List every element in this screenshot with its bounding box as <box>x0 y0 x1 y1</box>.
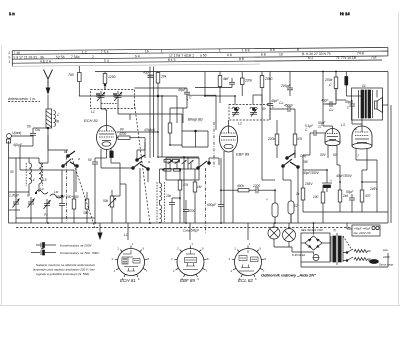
svg-text:+40µF +40µF: +40µF +40µF <box>354 227 371 231</box>
svg-text:40pF: 40pF <box>178 88 187 92</box>
svg-text:52 56: 52 56 <box>56 55 65 59</box>
svg-text:Kondensatory na 250V: Kondensatory na 250V <box>60 244 92 248</box>
svg-text:40µF/350V: 40µF/350V <box>336 174 353 178</box>
wire det to pot <box>221 189 230 191</box>
cord resist 1 <box>354 250 371 253</box>
svg-text:470: 470 <box>365 194 371 198</box>
svg-text:lampowym przy napięciu anodowy: lampowym przy napięciu anodowym 220 V i … <box>33 268 95 272</box>
svg-text:L2: L2 <box>238 122 242 126</box>
svg-text:50V: 50V <box>320 153 327 157</box>
svg-text:Cw: Cw <box>329 108 334 112</box>
svg-text:6 8: 6 8 <box>227 53 232 57</box>
svg-text:450pF: 450pF <box>284 104 294 108</box>
svg-text:4: 4 <box>231 269 233 273</box>
svg-text:ECH 81: ECH 81 <box>120 278 136 283</box>
wire v2 bottom drops <box>223 160 225 223</box>
switch contacts osc <box>35 187 63 198</box>
dial row1 numbers <box>13 48 299 55</box>
svg-text:EBF 89: EBF 89 <box>236 152 250 157</box>
tube V4 ECL82 pentode envelope <box>352 126 372 146</box>
junction dots <box>157 95 159 97</box>
svg-text:100+580: 100+580 <box>66 195 79 199</box>
resistor R19 1k5 <box>338 182 348 212</box>
bridge rectifier <box>305 236 322 250</box>
svg-text:3W: 3W <box>303 160 309 164</box>
wire right edge vertical <box>387 72 389 224</box>
gang mechanical dashed diagonal <box>135 104 151 224</box>
wire if can vertical <box>176 96 178 123</box>
wire v1 bottom mesh <box>101 167 133 169</box>
wire main ground bus <box>9 222 389 224</box>
L2 tuned circuit b <box>250 107 257 116</box>
fuse <box>313 255 319 261</box>
svg-text:1k5: 1k5 <box>343 194 348 198</box>
wire left mid <box>75 166 77 192</box>
svg-text:8: 8 <box>265 257 267 261</box>
svg-text:L3: L3 <box>341 123 345 127</box>
junction dots cluster <box>162 156 185 171</box>
resistor R18 100 <box>313 185 325 212</box>
svg-text:EBF 89: EBF 89 <box>180 278 195 283</box>
svg-text:6,3V/0,3A: 6,3V/0,3A <box>292 253 305 257</box>
svg-text:390: 390 <box>83 211 89 215</box>
legend capacitor 500V <box>31 248 100 255</box>
svg-text:C: C <box>57 113 60 117</box>
svg-text:10n: 10n <box>166 194 172 198</box>
tube socket ECL82 <box>229 242 267 281</box>
speaker <box>375 98 383 113</box>
svg-text:20k0: 20k0 <box>264 77 272 81</box>
capacitor C20 2200 horizontal <box>252 184 268 193</box>
band switch mechanical dashed left <box>72 158 95 228</box>
resistor R4 7k <box>68 66 81 96</box>
wire cathode down <box>100 149 102 168</box>
dial row2 numbers <box>13 51 364 59</box>
svg-text:47k(krj): 47k(krj) <box>144 128 155 132</box>
IF transformer L2 dashed box <box>229 105 270 121</box>
wires tubes down <box>327 145 329 158</box>
svg-text:9: 9 <box>202 247 204 251</box>
svg-text:7: 7 <box>357 154 359 158</box>
wire grid to gang <box>105 109 107 111</box>
wires power <box>273 239 275 247</box>
dial lamp 1 <box>268 227 280 239</box>
svg-text:+: + <box>330 179 332 183</box>
svg-text:7 5 4: 7 5 4 <box>101 50 109 54</box>
variable capacitor CV2 <box>113 91 122 106</box>
capacitor C29 40pF <box>143 71 154 78</box>
svg-text:71 77s 14 1B: 71 77s 14 1B <box>336 56 357 60</box>
capacitor C21 4700 <box>207 200 224 223</box>
transformer link dashed <box>343 236 352 250</box>
svg-text:+: + <box>266 198 268 202</box>
coil L4 <box>26 158 31 196</box>
svg-text:Tr.: Tr. <box>333 229 337 233</box>
svg-text:8 8: 8 8 <box>270 48 275 52</box>
wires detector mesh <box>160 168 199 170</box>
svg-text:7: 7 <box>146 269 148 273</box>
svg-text:1 n: 1 n <box>9 11 15 16</box>
svg-text:a′: a′ <box>226 77 229 81</box>
tube V3 electrodes <box>327 126 338 140</box>
svg-text:1,30pF: 1,30pF <box>9 194 20 198</box>
wire left long horizontals <box>9 191 30 193</box>
band switch wipers mid2 <box>197 161 210 169</box>
svg-text:1: 1 <box>249 242 251 246</box>
tube V3 ECL82 triode envelope <box>325 129 340 143</box>
gang link dashes <box>101 103 118 105</box>
resistor R17 1k <box>296 180 305 212</box>
mains switch 2 <box>343 257 353 261</box>
dashed chassis line <box>16 227 352 229</box>
svg-text:ECL 82: ECL 82 <box>238 278 253 283</box>
svg-text:SEL 90-9E1 C60: SEL 90-9E1 C60 <box>301 228 323 232</box>
tube socket ECH81 <box>112 242 150 281</box>
legend capacitor 250V <box>36 243 92 248</box>
svg-text:5 4: 5 4 <box>135 54 140 58</box>
svg-text:4: 4 <box>114 269 116 273</box>
svg-text:a: a <box>78 157 80 161</box>
wire wiper drops <box>139 168 141 223</box>
svg-text:Kondensatory na 700...500V: Kondensatory na 700...500V <box>60 251 100 255</box>
resistor R11 47k <box>144 123 172 145</box>
svg-text:Lw: Lw <box>54 190 59 194</box>
band switch wipers det <box>282 153 299 168</box>
svg-text:10: 10 <box>279 52 283 56</box>
svg-text:6: 6 <box>198 277 200 281</box>
svg-text:75s: 75s <box>371 55 377 59</box>
coil L6 osc IF <box>157 169 165 222</box>
svg-text:4700: 4700 <box>188 209 195 213</box>
wire bridge <box>313 252 315 255</box>
svg-text:8: 8 <box>207 257 209 261</box>
capacitor C25 <box>321 99 336 113</box>
coupling cap to V3 <box>310 130 325 136</box>
trimmer row mid <box>168 160 194 169</box>
svg-text:4(0µF: 4(0µF <box>13 143 23 147</box>
electrolytic C23 <box>288 192 298 223</box>
svg-text:Napięcie mierzone na odbiornik: Napięcie mierzone na odbiornik woltomier… <box>36 263 96 267</box>
svg-text:3: 3 <box>229 257 231 261</box>
capacitor C19 4700 <box>183 205 195 223</box>
extra mesh wires middle <box>9 72 392 224</box>
svg-text:a 50: a 50 <box>200 53 207 57</box>
svg-text:9: 9 <box>260 247 262 251</box>
cathode blob V1 <box>110 151 113 158</box>
wire y87.5 <box>195 87 232 89</box>
svg-text:b: b <box>64 150 66 154</box>
wire coil down <box>47 128 49 163</box>
dial scale faint line5 <box>12 64 260 66</box>
svg-text:Lo: Lo <box>40 187 44 191</box>
svg-text:1290: 1290 <box>108 75 116 79</box>
wire pair x162 <box>161 96 163 157</box>
svg-text:7 16: 7 16 <box>13 51 20 55</box>
svg-text:50k: 50k <box>103 199 109 203</box>
variable capacitor CV1 <box>96 91 105 106</box>
tube socket EBF89 <box>171 242 209 281</box>
resistor R20 470 <box>360 182 370 212</box>
svg-text:a: a <box>148 160 150 164</box>
svg-text:245V: 245V <box>369 187 378 191</box>
mains plug <box>368 260 379 264</box>
svg-text:7: 7 <box>206 269 208 273</box>
capacitor C11 40pF <box>178 88 192 100</box>
band switch wipers left <box>62 151 78 167</box>
svg-text:Czba 5/6µF: Czba 5/6µF <box>183 229 200 233</box>
svg-text:Odbiornik radiowy „Aida 2N”: Odbiornik radiowy „Aida 2N” <box>261 273 316 278</box>
tube V2 EBF89 envelope <box>220 126 238 152</box>
svg-text:50: 50 <box>88 158 92 162</box>
resistor R5 20k <box>103 72 115 91</box>
SECTION:dialband <box>8 47 388 66</box>
svg-text:2: 2 <box>235 247 237 251</box>
mains switch 1 <box>343 249 353 253</box>
svg-text:B. K 26 27 33 N 75: B. K 26 27 33 N 75 <box>302 52 331 56</box>
svg-text:16: 16 <box>145 49 149 53</box>
svg-text:8: 8 <box>148 257 150 261</box>
wires output stage <box>322 72 324 127</box>
svg-text:220k: 220k <box>267 137 275 141</box>
tube V4 electrodes <box>355 124 369 143</box>
resistor R10 100k horizontal <box>117 132 146 142</box>
svg-text:12: 12 <box>318 125 322 129</box>
svg-text:N 2: N 2 <box>308 56 313 60</box>
cap can block <box>352 225 380 236</box>
svg-text:C: C <box>329 83 332 87</box>
svg-text:zwn.: zwn. <box>382 248 389 252</box>
tube V2 electrodes <box>221 120 236 149</box>
svg-text:74 B: 74 B <box>357 51 365 55</box>
wire y88 horizontal <box>135 87 188 89</box>
power section box <box>301 233 330 262</box>
cord resist 2 <box>354 258 371 261</box>
wire under v1 <box>112 195 120 197</box>
svg-text:1 2: 1 2 <box>82 50 87 54</box>
wire top right join <box>336 99 346 101</box>
coil L5 <box>31 158 47 192</box>
svg-text:50: 50 <box>10 170 14 174</box>
svg-text:50µF: 50µF <box>346 190 354 194</box>
ground arrow <box>97 223 102 240</box>
svg-text:3: 3 <box>112 257 114 261</box>
wire mid vertical x213 <box>188 94 216 96</box>
capacitor C osc 250pF <box>55 195 66 212</box>
svg-text:200k: 200k <box>324 78 333 82</box>
svg-text:2: 2 <box>177 247 179 251</box>
resistor R14 47k <box>178 169 188 200</box>
electrolytic C22 <box>266 195 278 223</box>
svg-text:12: 12 <box>294 204 298 208</box>
svg-text:1: 1 <box>161 49 163 53</box>
svg-text:Gw. 220V~50: Gw. 220V~50 <box>354 231 371 235</box>
dial row3 numbers <box>40 55 377 63</box>
svg-text:L5: L5 <box>43 178 47 182</box>
svg-text:2: 2 <box>8 51 10 55</box>
capacitor C27 <box>346 190 355 206</box>
capacitor C17 450pF <box>279 101 295 112</box>
resistor R8 20k0 <box>260 72 272 104</box>
svg-text:Gł.: Gł. <box>362 84 366 88</box>
coil L7 <box>160 200 162 223</box>
svg-text:U(ant): U(ant) <box>12 131 21 135</box>
capacitor C cath <box>88 158 98 170</box>
electrolytic C26 <box>322 178 332 192</box>
svg-text:6g: 6g <box>55 119 59 123</box>
resistor R25 220k <box>240 72 252 97</box>
svg-text:6: 6 <box>138 277 140 281</box>
svg-text:50: 50 <box>27 125 31 129</box>
ferrite rod coil Cw <box>46 109 60 128</box>
junction dots bus <box>47 222 314 224</box>
wires osc mesh <box>9 157 30 159</box>
svg-text:5 4: 5 4 <box>104 59 109 63</box>
svg-text:5 9 17 21 26 31: 5 9 17 21 26 31 <box>13 55 37 59</box>
capacitor C24 40pF out <box>345 100 355 110</box>
wire B+ top bus <box>95 71 388 73</box>
band switch wipers mid <box>132 155 149 170</box>
wire speaker top <box>376 90 378 98</box>
resistor R12 220k <box>267 120 279 158</box>
wire top mid drops <box>289 72 291 85</box>
wires supply rail <box>302 155 304 180</box>
resistor 390 <box>83 192 89 223</box>
capacitor C13 200pF <box>280 84 293 96</box>
wire right of v2 <box>261 120 263 180</box>
capacitor C18 <box>166 194 175 210</box>
svg-text:Antena wewn. 1 m.: Antena wewn. 1 m. <box>7 97 36 101</box>
svg-text:255V: 255V <box>304 182 313 186</box>
wire input mesh <box>30 135 33 137</box>
svg-text:C: C <box>189 96 192 100</box>
potentiometer P2 50k <box>103 190 116 223</box>
svg-text:2200: 2200 <box>252 184 260 188</box>
terminal Uant <box>7 131 30 138</box>
svg-text:20k: 20k <box>160 75 167 79</box>
capacitor C1 50pF <box>27 125 40 142</box>
svg-text:9: 9 <box>143 247 145 251</box>
svg-text:L1: L1 <box>91 110 95 114</box>
junction dots extra <box>157 71 363 199</box>
svg-text:1: 1 <box>132 242 134 246</box>
capacitor C12 0,1 <box>226 77 235 88</box>
svg-text:1 8 8: 1 8 8 <box>242 48 250 52</box>
resistor R16 400k horizontal <box>230 184 252 192</box>
svg-text:Cw: Cw <box>35 128 40 132</box>
resistor R9 200k <box>324 72 338 101</box>
wires above L2 <box>234 96 236 105</box>
chassis dash-dot left <box>66 150 68 222</box>
socket drop wires <box>127 223 129 240</box>
resistor R13 470k <box>293 125 302 158</box>
svg-text:7 54b: 7 54b <box>71 55 80 59</box>
svg-text:H: 14: H: 14 <box>340 11 350 16</box>
wire det right drops <box>290 214 292 223</box>
wire AVC vertical <box>149 67 151 159</box>
wire anode right <box>117 131 159 133</box>
svg-text:220k: 220k <box>244 79 252 83</box>
output transformer windings core <box>359 90 373 118</box>
wire mid verticals <box>144 142 146 158</box>
svg-text:sygnału w gnieździe antenowym: sygnału w gnieździe antenowym (S. 50Ω) <box>36 272 89 276</box>
resistor cluster mid R21-R24 <box>157 157 199 223</box>
svg-text:8 1 5: 8 1 5 <box>168 58 176 62</box>
trimmer capacitor T1 <box>9 194 20 211</box>
tube V1 electrodes <box>99 126 114 147</box>
svg-text:8: 8 <box>297 48 299 52</box>
note text <box>33 263 96 276</box>
dial scale band lines <box>12 47 388 66</box>
power transformer Tr <box>331 229 343 266</box>
wiper labels <box>64 150 80 161</box>
svg-text:40pF: 40pF <box>345 100 353 104</box>
svg-text:L1: L1 <box>124 233 128 237</box>
wire under tuning box <box>118 113 182 115</box>
svg-text:8 8: 8 8 <box>239 57 244 61</box>
svg-text:Bilagl (B): Bilagl (B) <box>188 118 203 122</box>
output transformer box <box>352 88 383 120</box>
svg-text:C: C <box>27 194 30 198</box>
wire v2 down <box>223 151 225 160</box>
svg-text:220V: 220V <box>382 255 391 259</box>
chassis dash-dot divider <box>205 168 207 234</box>
svg-text:2: 2 <box>118 247 120 251</box>
svg-text:1M: 1M <box>197 185 202 189</box>
antenna symbol <box>44 70 53 93</box>
svg-text:P1: P1 <box>44 213 48 217</box>
capacitor C15 <box>182 130 208 147</box>
svg-text:200pF: 200pF <box>280 84 292 88</box>
trimmer capacitor T2 <box>27 194 35 211</box>
svg-text:47k: 47k <box>297 137 303 141</box>
svg-text:C: C <box>272 105 275 109</box>
svg-text:40µF/350V: 40µF/350V <box>303 171 320 175</box>
trimmer capacitor P1 <box>44 199 51 217</box>
svg-text:C: C <box>305 128 308 132</box>
resistor 100+580 <box>66 192 79 223</box>
svg-text:6: 6 <box>255 277 257 281</box>
svg-text:8V: 8V <box>120 128 125 132</box>
svg-text:ECH 81: ECH 81 <box>84 118 98 123</box>
tube V1 ECH81 envelope <box>97 126 117 150</box>
svg-text:60: 60 <box>262 107 266 111</box>
dial lamp 2 <box>283 229 296 242</box>
svg-text:3: 3 <box>171 257 173 261</box>
antenna plug arrow <box>46 88 51 96</box>
svg-text:40pF: 40pF <box>321 99 329 103</box>
svg-text:L4: L4 <box>31 178 35 182</box>
svg-text:790: 790 <box>68 73 74 77</box>
svg-text:40pF: 40pF <box>143 71 151 75</box>
svg-text:250pF: 250pF <box>55 195 66 199</box>
dial row edge labels <box>8 51 10 64</box>
L2 tuned circuit a <box>232 107 239 116</box>
resistor R7 4k7 <box>218 72 227 104</box>
resistor R6 20k <box>156 72 167 97</box>
svg-text:4: 4 <box>173 269 175 273</box>
wires right det <box>268 189 275 191</box>
tuning gang dashed box <box>91 90 135 109</box>
svg-text:400k: 400k <box>237 184 244 188</box>
svg-text:4700: 4700 <box>119 132 126 136</box>
svg-text:1: 1 <box>192 242 194 246</box>
svg-text:1: 1 <box>8 60 10 64</box>
resistor R15 1M <box>193 169 202 204</box>
svg-text:1: 1 <box>219 49 221 53</box>
capacitor C16 40pF <box>267 99 279 110</box>
svg-text:V.E 2 4: V.E 2 4 <box>40 59 51 63</box>
svg-text:6 8: 6 8 <box>261 53 266 57</box>
